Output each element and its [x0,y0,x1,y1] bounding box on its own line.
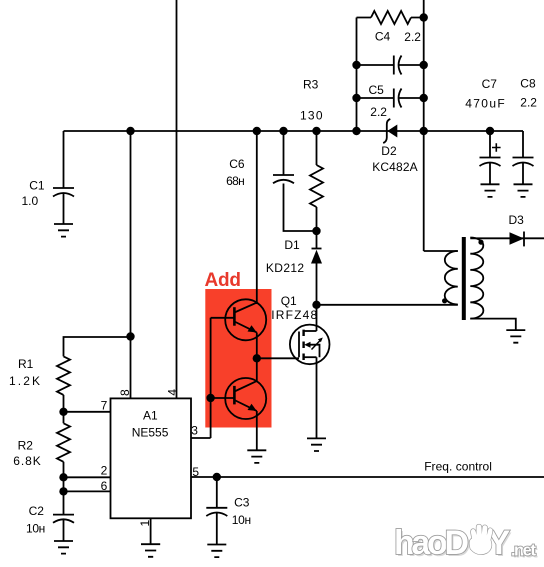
svg-text:5: 5 [192,465,199,479]
svg-text:R3: R3 [303,78,319,92]
node rail-x424 [420,127,428,135]
wire C3 leads [216,477,218,545]
wire C1 drop [63,131,65,188]
wire Q1 drain [316,305,318,331]
transformer secondary phase dot [478,240,483,245]
node C5 right [420,94,428,102]
svg-text:2: 2 [101,464,108,478]
transistor T2 [225,378,266,419]
wire pin3 left vertical [191,318,211,438]
watermark haoDIY.net [394,524,538,564]
wire pin8 vertical to rail [130,131,132,399]
ground C7 [481,184,500,197]
ground T2 emitter [247,450,266,463]
transformer secondary winding [470,238,483,319]
diode D1 [311,249,322,264]
svg-text:D2: D2 [381,144,397,158]
wire secondary top lead [470,237,544,239]
node T bases [206,394,214,402]
ground C1 [54,224,73,237]
capacitor C4 [394,56,402,75]
wire pin6 stub [64,490,111,492]
svg-text:2.2: 2.2 [370,105,387,119]
node C5 left [352,94,360,102]
mosfet Q1 [290,325,330,365]
wire C5 leads [357,97,424,99]
svg-text:C7: C7 [482,77,498,91]
capacitor C6 [273,175,294,183]
svg-text:470uF: 470uF [465,96,505,110]
wire pin5 freq control line [191,476,544,478]
resistor R1 [57,356,70,394]
transistor T1 [225,299,266,340]
svg-text:130: 130 [300,109,323,123]
node C4 right [420,61,428,69]
wire rail to T1 collector [256,131,258,304]
wire R2 leads [63,412,65,478]
node drain [312,301,320,309]
resistor R2 [57,423,70,461]
svg-text:R1: R1 [18,357,34,371]
highlight red Add block [205,289,271,428]
wire pin7 stub [64,411,111,413]
svg-text:6: 6 [101,479,108,493]
IC A1 NE555 box [111,398,192,518]
wire right rail x424 from top edge [423,0,425,251]
wire T2 emitter to ground [256,411,258,450]
transformer primary winding [445,251,458,305]
svg-text:C4: C4 [375,29,391,43]
svg-text:10н: 10н [232,513,251,527]
transformer core [462,237,466,320]
svg-text:7: 7 [101,399,108,413]
svg-text:C3: C3 [234,496,250,510]
ground Q1 source [307,438,326,451]
wire D1 leads [316,231,318,305]
node rail-T1 [253,127,261,135]
wire main V+ rail [64,130,524,132]
svg-text:KD212: KD212 [266,261,305,275]
svg-text:R2: R2 [18,438,34,452]
wire T1 emitter to node [256,333,258,359]
node pin6 [59,487,67,495]
ground C2 [54,541,73,554]
svg-text:KC482A: KC482A [372,160,418,174]
wire C7 drop [489,131,491,184]
svg-text:6.8K: 6.8K [13,454,41,468]
node pin2 [59,473,67,481]
wire C2 leads [63,491,65,541]
wire top resistor leads [357,17,424,19]
svg-text:C5: C5 [369,83,385,97]
wire pin2 to pin6 [63,477,65,491]
svg-text:D1: D1 [284,238,300,252]
svg-text:Freq. control: Freq. control [424,460,492,474]
capacitor C8 [513,158,534,167]
svg-text:C8: C8 [520,77,536,91]
node rail-C6 [279,127,287,135]
wire pin4 vertical from top edge [176,0,178,399]
diode D3 [510,232,525,247]
node pin5-C3 [213,473,221,481]
node rail-pin8 [126,127,134,135]
svg-text:.net: .net [511,541,536,560]
capacitor C7 plus sign [492,143,501,152]
svg-text:C2: C2 [29,504,45,518]
watermark hand [470,525,493,555]
wire pin1 to ground [150,518,152,544]
wire C8 drop [522,131,524,184]
svg-text:haoD: haoD [394,524,469,562]
node rail-x356 [352,127,360,135]
svg-text:Q1: Q1 [281,294,297,308]
ground pin1 [141,544,160,557]
capacitor C5 [394,89,402,108]
wire C4 leads [357,64,424,66]
capacitor C1 [53,188,74,197]
ground C8 [514,184,533,197]
wire T2 collector to node [256,358,258,381]
svg-text:10н: 10н [26,521,45,535]
node R1-R2-pin7 [59,408,67,416]
wire R1 top L [64,337,131,356]
capacitor C3 [206,508,227,516]
svg-text:4: 4 [165,389,179,396]
svg-text:1.2K: 1.2K [9,374,40,388]
svg-text:Add: Add [205,270,242,291]
svg-text:IRFZ48: IRFZ48 [271,308,317,322]
wire left branch x356 [356,18,358,132]
wire Q1 source to ground [316,357,318,438]
resistor R3 [310,165,323,207]
svg-text:A1: A1 [143,409,158,423]
wire secondary bottom lead [470,319,516,331]
wire pin2 stub [64,476,111,478]
node R1 top [126,332,134,340]
node top resistor right [420,13,428,21]
wire drain node to transformer primary [317,304,458,306]
diode D2 zener [383,119,397,143]
svg-text:1: 1 [138,519,152,526]
node R3-C6-D1 [312,227,320,235]
ground secondary [506,330,525,343]
wire node to gate [257,357,299,359]
svg-text:C6: C6 [229,157,245,171]
ground C3 [207,545,226,558]
svg-text:C1: C1 [29,179,45,193]
node T1emitter-T2collector-gate [253,354,261,362]
capacitor C2 [53,515,74,523]
wire T1 base [211,317,235,319]
svg-text:68н: 68н [226,174,245,188]
wire C1 bottom lead [63,194,65,225]
svg-text:8: 8 [118,389,132,396]
svg-text:2.2: 2.2 [404,30,421,44]
wire R3 leads [316,131,318,231]
wire primary top lead [424,250,458,252]
svg-text:3: 3 [191,424,198,438]
svg-text:1.0: 1.0 [22,194,39,208]
capacitor C7 [480,158,501,167]
node C4 left [352,61,360,69]
svg-text:2.2: 2.2 [520,96,537,110]
resistor top unlabeled [371,11,411,24]
svg-text:D3: D3 [509,213,525,227]
node rail-C7 [486,127,494,135]
transformer primary phase dot [442,298,447,303]
wire C6 bottom L to node [284,184,317,232]
wire R1 bottom lead [63,395,65,412]
wire C6 top [283,131,285,175]
wire T2 base [211,397,235,399]
svg-text:NE555: NE555 [132,426,169,440]
node rail-R3 [312,127,320,135]
